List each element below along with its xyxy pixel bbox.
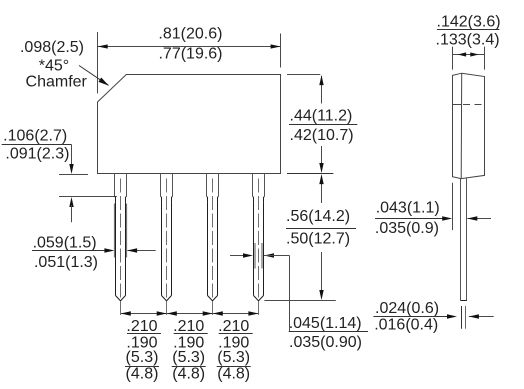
fraction bars column 3 [219, 333, 253, 335]
fraction bar .106/.091 [2, 144, 72, 146]
svg-text:.56(14.2): .56(14.2) [286, 208, 350, 225]
dimension line .059 left with fraction bar [32, 250, 112, 252]
dimension line .024 with fraction bar [373, 316, 454, 318]
dimension line .043 with fraction bar [375, 218, 450, 220]
fraction bars column 1 [127, 333, 161, 335]
dimension line .44/.42 upper segment [321, 76, 323, 104]
extension lines lead tip side view [461, 306, 463, 329]
svg-text:.42(10.7): .42(10.7) [290, 127, 354, 144]
svg-text:.50(12.7): .50(12.7) [286, 231, 350, 248]
pitch text column 2 [172, 318, 205, 383]
svg-text:.106(2.7): .106(2.7) [3, 128, 67, 145]
lead 3 centerline [212, 179, 214, 316]
svg-text:.81(20.6): .81(20.6) [158, 26, 222, 43]
svg-text:.024(0.6): .024(0.6) [375, 300, 439, 317]
lead 1 shoulder notch [115, 196, 116, 203]
arrowhead right .81 [271, 44, 281, 48]
lead 3 shoulder notch [207, 196, 208, 203]
arrowhead down .44 [319, 163, 323, 173]
side view lead [460, 179, 467, 301]
chamfer leader line [79, 66, 108, 86]
svg-text:(4.8): (4.8) [126, 366, 159, 383]
extension line lead shoulder [59, 196, 117, 198]
lead 2 shoulder notch [161, 196, 162, 203]
svg-text:.059(1.5): .059(1.5) [33, 235, 97, 252]
side view body [453, 73, 485, 178]
lead 4 shoulder notch [253, 196, 254, 203]
svg-text:.210: .210 [126, 318, 157, 335]
svg-text:(5.3): (5.3) [126, 349, 159, 366]
fraction bar .045/.035 [289, 331, 368, 333]
svg-text:.133(3.4): .133(3.4) [436, 32, 500, 49]
arrowhead down .106 [69, 164, 73, 174]
pitch text column 3 [217, 318, 250, 383]
svg-text:.77(19.6): .77(19.6) [158, 46, 222, 63]
dimension line .44/.42 lower segment [321, 146, 323, 172]
lead 1 centerline [120, 179, 122, 316]
arrowhead .043 right [467, 216, 477, 220]
lead 4 lower section [254, 203, 264, 301]
arrowhead left .142 [458, 52, 466, 56]
svg-text:(5.3): (5.3) [172, 349, 205, 366]
svg-text:.035(0.9): .035(0.9) [375, 220, 439, 237]
extension lines .142/.133 [452, 47, 454, 70]
svg-text:.098(2.5): .098(2.5) [20, 39, 84, 56]
dimension line .210 between lead 3 and lead 4 [213, 313, 258, 315]
svg-text:.043(1.1): .043(1.1) [376, 200, 440, 217]
svg-text:.051(1.3): .051(1.3) [34, 254, 98, 271]
dimension line .142/.133 [453, 54, 485, 56]
arrowhead .024 left [447, 314, 457, 318]
side view front edge [460, 73, 463, 178]
svg-text:(5.3): (5.3) [217, 349, 250, 366]
extension line .043 [452, 183, 454, 230]
lead 4 wide section [253, 174, 265, 197]
arrowhead .024 right [469, 314, 479, 318]
lead 2 lower section [162, 203, 172, 301]
svg-text:.210: .210 [173, 318, 204, 335]
arrowhead left .81 [98, 44, 108, 48]
arrowhead .059 right [127, 248, 137, 252]
leader below up arrow [71, 205, 73, 222]
dimension line .045 left [230, 255, 250, 257]
lead 3 wide section [207, 174, 219, 197]
svg-text:.045(1.14): .045(1.14) [289, 315, 362, 332]
svg-text:(4.8): (4.8) [217, 366, 250, 383]
dimension line .81/.77 [98, 46, 281, 48]
svg-text:Chamfer: Chamfer [26, 74, 88, 91]
svg-text:.035(0.90): .035(0.90) [289, 334, 362, 351]
arrowhead .045 left [243, 253, 253, 257]
lead 1 lower section [116, 203, 126, 301]
lead 4 min-width extension lines [255, 243, 262, 269]
svg-text:*45°: *45° [39, 58, 69, 75]
svg-text:.142(3.6): .142(3.6) [437, 14, 501, 31]
svg-text:.091(2.3): .091(2.3) [5, 146, 69, 163]
arrowhead .045 right [264, 253, 274, 257]
package body (front view) [98, 75, 281, 174]
leader down from .106 text [71, 145, 73, 171]
fraction bars column 2 [174, 333, 208, 335]
dimension line .210 between lead 1 and lead 2 [121, 313, 167, 315]
svg-text:.210: .210 [218, 318, 249, 335]
arrowhead .043 left [442, 216, 452, 220]
dimension line .024 right [469, 316, 494, 318]
lead 4 centerline [258, 179, 260, 316]
extension line body bottom left [59, 174, 88, 176]
fraction bar .44/.42 [289, 124, 357, 126]
fraction bar .142/.133 [437, 29, 500, 31]
lead 2 centerline [166, 179, 168, 316]
lead 3 lower section [208, 203, 218, 301]
arrowhead right .142 [470, 52, 478, 56]
arrowhead down .56 [319, 290, 323, 300]
lead 2 wide section [161, 174, 173, 197]
chamfer leader arrowhead [99, 78, 110, 86]
arrowhead up .56 [319, 174, 323, 184]
arrowhead up .44 [319, 75, 323, 85]
lead 1 width extension lines [114, 204, 126, 258]
side view parting line solid part [453, 104, 462, 106]
extension line body top right [287, 74, 320, 76]
dimension line .56/.50 upper segment [321, 176, 323, 204]
extension line body bottom right [287, 173, 333, 175]
arrowhead .059 left [104, 248, 114, 252]
dimension line .059 right [128, 250, 156, 252]
dimension line .043 right [467, 218, 491, 220]
fraction bar .56/.50 [286, 228, 356, 230]
arrowhead up .106 [69, 197, 73, 207]
svg-text:.016(0.4): .016(0.4) [374, 317, 438, 334]
leader .045 horizontal [264, 255, 290, 257]
svg-text:(4.8): (4.8) [172, 366, 205, 383]
leader .045 vertical [289, 256, 291, 332]
extension line right of .81 dimension [280, 34, 282, 68]
svg-text:.44(11.2): .44(11.2) [290, 108, 353, 125]
dimension line .210 between lead 2 and lead 3 [167, 313, 213, 315]
dimension line .56/.50 lower segment [321, 252, 323, 298]
extension line left of .81 dimension [97, 32, 99, 93]
side view parting line dashed part [462, 104, 485, 106]
pitch text column 1 [126, 318, 159, 383]
extension line lead tip level [264, 300, 335, 302]
lead 1 wide section [115, 174, 127, 197]
